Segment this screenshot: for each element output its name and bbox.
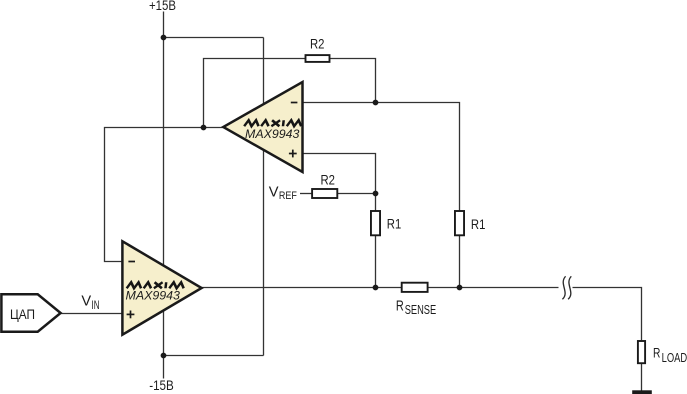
DAC block (ЦАП) <box>1 294 60 331</box>
wire U1 inverting input line to right R1 <box>303 103 460 212</box>
wire R2 to VREF node <box>337 193 375 195</box>
resistor R2 top feedback <box>306 55 330 62</box>
MAXIM logo U1 <box>244 120 302 126</box>
wire supply column vertical <box>263 38 265 356</box>
svg-text:LOAD: LOAD <box>662 350 687 365</box>
svg-text:R1: R1 <box>387 216 402 232</box>
junction node +15V <box>161 35 167 41</box>
svg-text:MAX9943: MAX9943 <box>245 127 300 141</box>
wire RSENSE to break <box>428 287 559 289</box>
wire +15V junction to supply column <box>164 37 264 39</box>
junction node U1 output / feedback <box>201 125 207 131</box>
svg-text:R: R <box>653 346 660 361</box>
junction node U1 inverting input <box>373 100 379 106</box>
wire U1 noninverting input to left R1 <box>303 154 376 212</box>
svg-text:SENSE: SENSE <box>405 302 437 317</box>
svg-text:R1: R1 <box>471 216 486 232</box>
wire right R1 bottom lead <box>459 235 461 287</box>
resistor RSENSE <box>402 283 428 292</box>
wire U2 output to RSENSE <box>202 287 402 289</box>
junction node left R1 / main line <box>373 285 379 291</box>
wire RLOAD to ground <box>641 364 643 391</box>
svg-text:R2: R2 <box>321 171 336 187</box>
op-amp U2 plus pin label <box>127 313 135 315</box>
op-amp U2 minus pin label <box>128 261 135 263</box>
junction node -15V <box>161 353 167 359</box>
wire U1 output to U2 inverting input <box>105 128 224 262</box>
ground bar <box>632 390 652 394</box>
wire -15V junction to supply column <box>164 355 264 357</box>
wire feedback from U1 output node up to R2 <box>204 59 306 128</box>
resistor RLOAD <box>638 341 645 363</box>
wire R2 to U1 inverting input node <box>330 59 376 103</box>
op-amp U1 MAX9943 (points left) <box>223 82 302 172</box>
svg-text:+15В: +15В <box>149 0 176 13</box>
break symbol (long-line squiggle) <box>562 276 571 299</box>
wire break to RLOAD corner <box>573 288 642 341</box>
wire DAC output to U2 noninverting input <box>61 313 123 315</box>
svg-text:R2: R2 <box>310 36 325 52</box>
op-amp U1 minus pin label <box>291 102 298 104</box>
svg-text:REF: REF <box>279 190 297 202</box>
junction node VREF / R1 <box>373 191 379 197</box>
op-amp U1 plus pin label <box>289 153 297 155</box>
op-amp U2 MAX9943 (points right) <box>122 241 201 334</box>
wire VREF lead to R2 <box>300 193 312 195</box>
MAXIM logo U2 <box>127 282 185 288</box>
svg-text:IN: IN <box>92 298 100 312</box>
junction node right R1 / main line <box>457 285 463 291</box>
wire left R1 bottom lead <box>375 235 377 287</box>
svg-text:V: V <box>269 184 279 201</box>
svg-text:ЦАП: ЦАП <box>10 306 35 322</box>
resistor R1 right <box>455 211 464 235</box>
wire +15V rail vertical <box>163 12 165 379</box>
svg-text:-15В: -15В <box>149 378 174 393</box>
resistor R1 left <box>371 211 380 235</box>
svg-text:V: V <box>81 293 91 310</box>
resistor R2 vref <box>312 189 337 198</box>
svg-text:R: R <box>396 297 404 314</box>
svg-text:MAX9943: MAX9943 <box>126 289 181 303</box>
